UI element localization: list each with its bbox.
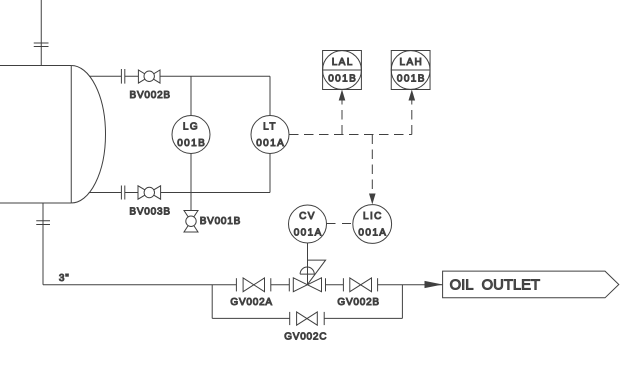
svg-text:LG: LG: [183, 121, 199, 132]
svg-text:CV: CV: [299, 211, 316, 222]
lower side nozzle pipe: [89, 192, 122, 194]
level gauge LG 001B: [172, 116, 210, 154]
bottom flange pair: [36, 221, 50, 225]
branch wire to LT: [269, 76, 271, 115]
svg-text:BV002B: BV002B: [130, 90, 171, 101]
top nozzle pipe: [40, 0, 42, 66]
lower pipe to LT branch: [161, 192, 270, 194]
svg-text:001B: 001B: [177, 138, 206, 149]
svg-text:OIL OUTLET: OIL OUTLET: [450, 278, 540, 294]
flange tick GV002C right: [323, 312, 325, 325]
ball valve BV002B: [138, 70, 160, 83]
pipe control valve to GV002B: [326, 284, 344, 286]
top nozzle flange: [34, 43, 49, 47]
svg-text:LAH: LAH: [400, 57, 424, 68]
svg-text:LIC: LIC: [363, 211, 383, 222]
flange tick GV002B right: [377, 278, 379, 291]
flange tick GV002A right: [270, 278, 272, 291]
lower nozzle flange pair: [121, 186, 124, 200]
ball valve BV003B: [138, 186, 161, 199]
bypass branch down left: [211, 285, 213, 319]
outlet flag: [443, 271, 619, 298]
bypass branch up right: [401, 285, 403, 319]
pipe to valve BV003B: [125, 192, 138, 194]
signal wire down to LIC (dashed): [371, 135, 373, 195]
outlet arrowhead: [425, 281, 443, 288]
pipe from BV002B to LT branch: [160, 75, 270, 77]
diaphragm dome: [300, 267, 314, 274]
main horizontal pipe: [43, 284, 236, 286]
bypass pipe right: [324, 317, 402, 319]
svg-text:BV001B: BV001B: [200, 216, 241, 227]
svg-text:3": 3": [59, 273, 70, 284]
svg-text:GV002B: GV002B: [337, 297, 379, 308]
svg-text:001B: 001B: [328, 74, 357, 85]
flange tick GV002A left: [235, 278, 237, 291]
svg-text:001A: 001A: [294, 228, 323, 239]
svg-text:001B: 001B: [397, 74, 426, 85]
flange tick CV right: [325, 278, 327, 291]
main pipe from vessel bottom: [42, 203, 44, 285]
flange tick GV002C left: [289, 312, 291, 325]
svg-text:LT: LT: [263, 121, 277, 132]
control valve body: [293, 278, 321, 292]
actuator wedge: [308, 260, 326, 284]
alarm LAH 001B: [391, 51, 430, 90]
bypass pipe left: [212, 317, 290, 319]
arrowhead into LAL: [339, 90, 346, 101]
signal wire up to LAH (dashed): [411, 100, 413, 135]
flange tick CV left: [288, 278, 290, 291]
svg-text:LAL: LAL: [332, 57, 354, 68]
level transmitter LT 001A: [251, 116, 289, 154]
vessel shell: [0, 66, 106, 204]
svg-text:GV002C: GV002C: [284, 331, 327, 342]
svg-text:BV003B: BV003B: [129, 207, 170, 218]
signal wire up to LAL (dashed): [341, 100, 343, 135]
wire LT down to lower pipe: [269, 154, 271, 193]
flange tick GV002B left: [342, 278, 344, 291]
signal wire LT to LAH corner (dashed horizontal): [289, 134, 412, 136]
gate valve GV002A: [243, 278, 264, 292]
arrowhead into LAH: [409, 90, 416, 101]
drain ball valve BV001B: [184, 211, 198, 233]
signal wire CV to LIC (dashed): [327, 223, 353, 225]
pipe GV002B to outlet: [378, 284, 443, 286]
upper side nozzle pipe: [89, 75, 121, 77]
svg-text:GV002A: GV002A: [230, 297, 272, 308]
svg-text:001A: 001A: [256, 138, 285, 149]
pipe GV002A to control valve: [271, 284, 290, 286]
svg-text:001A: 001A: [358, 228, 387, 239]
wire LG down to drain: [190, 154, 192, 211]
valve stem from CV: [307, 243, 309, 285]
gate valve GV002C: [297, 312, 318, 325]
upper nozzle flange pair: [121, 69, 124, 84]
controller LIC 001A: [353, 205, 392, 244]
alarm LAL 001B: [323, 51, 362, 90]
gate valve GV002B: [350, 278, 372, 292]
control valve pilot CV 001A: [289, 205, 327, 243]
pipe to valve BV002B: [125, 75, 139, 77]
branch wire to LG: [190, 76, 192, 115]
arrowhead into LIC: [369, 194, 376, 205]
